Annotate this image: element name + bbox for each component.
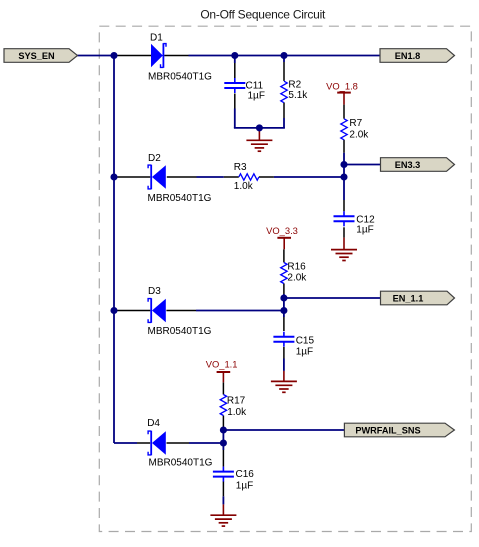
svg-text:VO_1.8: VO_1.8 <box>326 80 358 91</box>
svg-text:MBR0540T1G: MBR0540T1G <box>148 72 212 83</box>
svg-text:1µF: 1µF <box>236 481 253 492</box>
svg-text:MBR0540T1G: MBR0540T1G <box>148 193 212 204</box>
svg-text:On-Off Sequence Circuit: On-Off Sequence Circuit <box>200 8 326 22</box>
svg-text:5.1k: 5.1k <box>288 90 308 101</box>
svg-text:D4: D4 <box>147 418 160 429</box>
svg-text:EN1.8: EN1.8 <box>395 51 421 61</box>
svg-text:EN_1.1: EN_1.1 <box>393 293 424 303</box>
svg-text:C16: C16 <box>236 469 255 480</box>
svg-text:2.0k: 2.0k <box>349 130 369 141</box>
svg-text:R16: R16 <box>287 261 306 272</box>
svg-text:R7: R7 <box>349 118 362 129</box>
svg-text:1µF: 1µF <box>296 347 313 358</box>
svg-text:R17: R17 <box>227 396 246 407</box>
svg-text:MBR0540T1G: MBR0540T1G <box>149 457 213 468</box>
svg-text:EN3.3: EN3.3 <box>395 160 421 170</box>
svg-text:MBR0540T1G: MBR0540T1G <box>148 326 212 337</box>
svg-text:2.0k: 2.0k <box>287 273 307 284</box>
svg-text:PWRFAIL_SNS: PWRFAIL_SNS <box>355 425 420 435</box>
svg-text:D1: D1 <box>150 32 163 43</box>
svg-text:SYS_EN: SYS_EN <box>18 51 55 61</box>
svg-text:1µF: 1µF <box>248 90 265 101</box>
svg-text:D3: D3 <box>148 286 161 297</box>
svg-text:R2: R2 <box>288 80 301 91</box>
svg-text:1.0k: 1.0k <box>234 181 254 192</box>
svg-text:D2: D2 <box>148 153 161 164</box>
svg-text:VO_3.3: VO_3.3 <box>266 225 298 236</box>
svg-text:VO_1.1: VO_1.1 <box>206 359 238 370</box>
svg-text:C15: C15 <box>296 336 315 347</box>
svg-text:1µF: 1µF <box>356 225 373 236</box>
svg-text:1.0k: 1.0k <box>227 407 247 418</box>
svg-text:R3: R3 <box>234 162 247 173</box>
